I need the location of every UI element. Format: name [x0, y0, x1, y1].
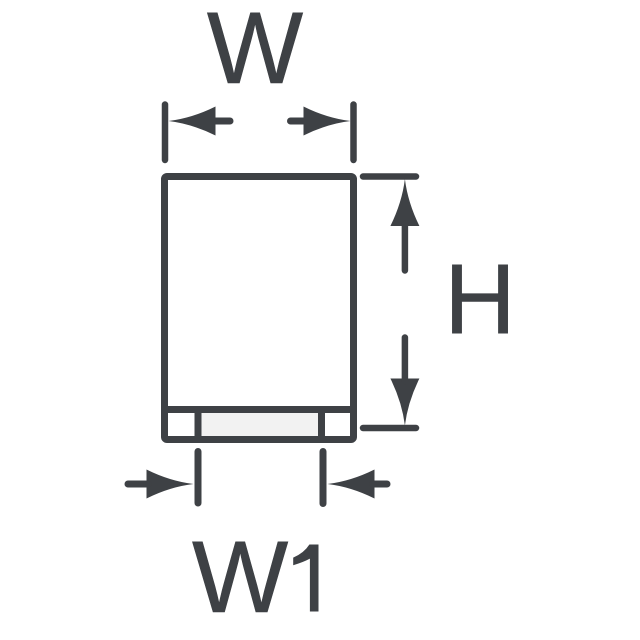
dimension H arrow down [390, 338, 419, 426]
svg-text:H: H [444, 243, 516, 354]
svg-text:W: W [192, 520, 288, 634]
dimension W1 arrow left [128, 470, 194, 499]
component body outline [165, 177, 354, 440]
terminal divider right [318, 410, 325, 440]
svg-text:W: W [207, 0, 303, 105]
dimension W arrow right [291, 107, 351, 136]
dimension W1 extension line right [320, 452, 327, 504]
dimension W1 extension line left [195, 452, 202, 504]
dimension W arrow left [169, 107, 231, 136]
dimension W extension line right [350, 105, 357, 161]
terminal divider left [195, 410, 202, 440]
terminal band top line [162, 406, 356, 413]
dimension H extension line top [363, 173, 416, 180]
terminal band fill [198, 410, 322, 436]
dimension W extension line left [162, 105, 169, 161]
dimension H arrow up [390, 179, 419, 271]
dimension W1 arrow right [328, 470, 388, 499]
dimension W1 label digit 1 [293, 545, 318, 612]
dimension H extension line bottom [363, 425, 416, 432]
